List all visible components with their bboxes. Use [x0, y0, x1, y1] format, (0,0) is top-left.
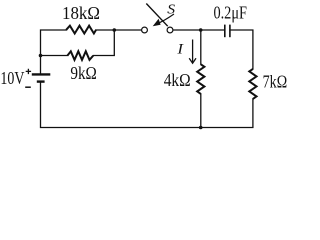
svg-text:7kΩ: 7kΩ [263, 72, 288, 92]
svg-text:I: I [176, 42, 184, 58]
svg-text:S: S [167, 2, 175, 17]
svg-text:4kΩ: 4kΩ [164, 70, 191, 90]
svg-text:0.2μF: 0.2μF [213, 3, 247, 23]
svg-text:10V: 10V [0, 68, 24, 88]
svg-text:9kΩ: 9kΩ [70, 63, 97, 83]
svg-text:18kΩ: 18kΩ [62, 3, 100, 23]
